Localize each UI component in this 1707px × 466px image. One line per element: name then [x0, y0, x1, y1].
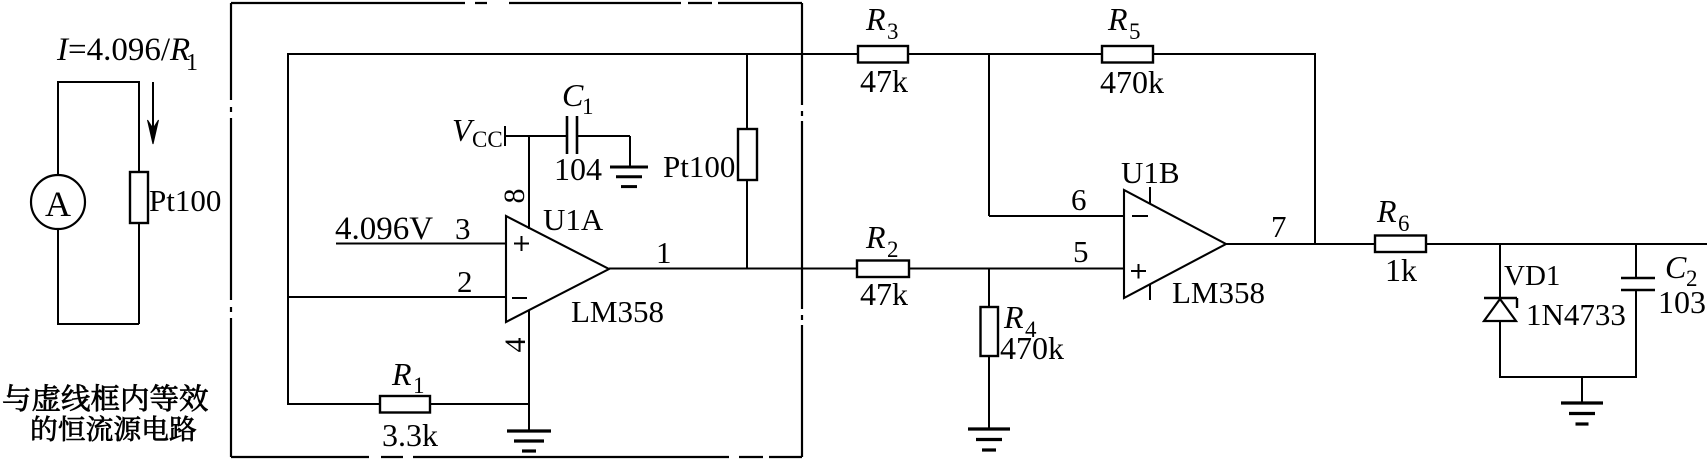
label R5 — [1107, 1, 1141, 44]
svg-text:470k: 470k — [1000, 330, 1064, 366]
U1B plus input marker — [1131, 264, 1146, 279]
svg-text:I=4.096/R: I=4.096/R — [56, 32, 190, 68]
wire R6 to right edge — [1426, 243, 1707, 245]
svg-text:R: R — [1376, 193, 1397, 229]
svg-text:CC: CC — [472, 127, 503, 152]
svg-text:Pt100: Pt100 — [149, 183, 221, 218]
label R4 — [1003, 299, 1037, 342]
ground for C1 — [610, 167, 648, 187]
wire VD1 branch upper — [1499, 244, 1501, 298]
ammeter A circle — [31, 175, 85, 229]
resistor R3 box — [858, 46, 908, 63]
U1B bottom pin tick — [1149, 284, 1151, 300]
label VD1 — [1504, 260, 1560, 292]
svg-text:LM358: LM358 — [1172, 275, 1265, 310]
wire Vcc to C1 — [505, 135, 567, 137]
wire top-right vertical — [1314, 53, 1316, 244]
wire left-loop right lower — [138, 223, 140, 324]
label 3.3k — [382, 417, 438, 453]
wire C2 branch upper — [1635, 244, 1637, 278]
current direction arrow — [148, 82, 159, 144]
svg-text:R: R — [391, 356, 412, 392]
label pin 8 (rotated) — [498, 189, 531, 204]
op-amp U1B triangle — [1124, 190, 1226, 298]
label 470k (R5) — [1100, 64, 1164, 100]
svg-text:3: 3 — [887, 19, 899, 44]
label pin 6 — [1071, 182, 1087, 217]
dashed box left edge — [230, 3, 232, 457]
wire pin8 stub — [528, 136, 530, 229]
label pin 5 — [1073, 234, 1089, 269]
wire R1 left — [288, 403, 380, 405]
label 47k (R3) — [860, 63, 908, 99]
label Vcc — [452, 112, 503, 152]
svg-text:47k: 47k — [860, 276, 908, 312]
label R3 — [865, 1, 899, 44]
svg-text:R: R — [1107, 1, 1128, 37]
svg-text:1: 1 — [656, 235, 672, 270]
resistor R2 box — [857, 261, 909, 278]
resistor R1 box — [380, 396, 430, 413]
wire ground stem (right) — [1581, 377, 1583, 403]
svg-text:3.3k: 3.3k — [382, 417, 438, 453]
svg-text:U1B: U1B — [1121, 155, 1180, 190]
label pin 3 — [455, 211, 471, 246]
wire R3 to R5 — [908, 53, 1102, 55]
wire left-loop left upper — [57, 81, 59, 176]
label 1N4733 — [1526, 297, 1626, 332]
dashed box bottom edge — [231, 456, 802, 458]
wire U1A output — [609, 268, 857, 270]
label LM358 (U1B) — [1172, 275, 1265, 310]
label pin 7 — [1271, 209, 1287, 244]
svg-text:VD1: VD1 — [1504, 260, 1560, 292]
zener diode VD1 symbol — [1484, 298, 1517, 321]
svg-text:1: 1 — [186, 50, 198, 76]
resistor Pt100 sensor (left) — [130, 172, 148, 223]
wire top rail (U1A feedback to R3) — [288, 53, 858, 55]
label R2 — [865, 219, 899, 262]
svg-text:A: A — [45, 184, 71, 224]
label 103 — [1658, 284, 1706, 320]
capacitor C2 plates — [1621, 278, 1655, 290]
label pin 1 — [656, 235, 672, 270]
svg-text:R: R — [865, 219, 886, 255]
label Pt100 (left) — [149, 183, 221, 218]
capacitor C1 plates — [567, 116, 577, 154]
svg-text:Pt100: Pt100 — [663, 149, 735, 184]
wire R4 to ground — [988, 356, 990, 429]
wire Pt100 branch upper — [746, 54, 748, 129]
svg-text:R: R — [865, 1, 886, 37]
wire inner left vertical — [287, 53, 289, 405]
svg-text:1: 1 — [413, 373, 425, 398]
svg-text:U1A: U1A — [543, 202, 604, 237]
svg-text:470k: 470k — [1100, 64, 1164, 100]
svg-text:103: 103 — [1658, 284, 1706, 320]
wire left-loop right upper — [138, 81, 140, 173]
caption line1 (Chinese) 与虚线框内等效 — [3, 384, 207, 411]
label 1k — [1385, 252, 1417, 288]
ground (right) — [1561, 403, 1603, 424]
label R1 — [391, 356, 425, 398]
label 470k (R4) — [1000, 330, 1064, 366]
label C1 — [562, 77, 594, 119]
label pin 4 (rotated) — [499, 338, 532, 353]
wire VD1 branch lower — [1499, 321, 1501, 378]
svg-text:3: 3 — [455, 211, 471, 246]
wire left-loop left lower — [57, 229, 59, 325]
wire C2 branch lower — [1635, 290, 1637, 378]
label 4.096V — [335, 211, 433, 247]
resistor Pt100 (in box) — [738, 129, 757, 180]
resistor R5 box — [1102, 46, 1153, 63]
label 47k (R2) — [860, 276, 908, 312]
svg-text:6: 6 — [1398, 211, 1410, 236]
resistor R4 box — [981, 307, 999, 356]
svg-text:1: 1 — [582, 94, 594, 119]
wire C1 to ground — [577, 136, 630, 167]
svg-text:104: 104 — [554, 151, 602, 187]
wire R2 to U1B pin5 — [909, 268, 1124, 270]
label 104 — [554, 151, 602, 187]
dashed box top edge — [231, 2, 802, 4]
svg-text:47k: 47k — [860, 63, 908, 99]
dashed box right edge — [801, 3, 803, 457]
op-amp U1A triangle — [506, 216, 609, 322]
ground for R4 — [968, 429, 1010, 450]
svg-text:1N4733: 1N4733 — [1526, 297, 1626, 332]
svg-text:4.096V: 4.096V — [335, 211, 433, 247]
svg-text:6: 6 — [1071, 182, 1087, 217]
svg-text:5: 5 — [1129, 19, 1141, 44]
U1A minus input marker — [512, 297, 527, 299]
label Pt100 (in box) — [663, 149, 735, 184]
svg-text:2: 2 — [887, 237, 899, 262]
svg-text:C: C — [562, 77, 584, 113]
Vcc terminal tick — [504, 126, 506, 146]
wire bottom rail VD1-C2 — [1500, 376, 1636, 378]
label U1B — [1121, 155, 1180, 190]
label C2 — [1665, 249, 1698, 291]
wire pin3 input — [336, 243, 506, 245]
svg-text:1k: 1k — [1385, 252, 1417, 288]
U1B minus input marker — [1132, 215, 1148, 217]
wire left-loop top — [58, 81, 139, 83]
resistor R6 box — [1375, 236, 1426, 253]
wire pin4 stub to ground — [528, 310, 530, 431]
svg-text:LM358: LM358 — [571, 294, 664, 329]
label LM358 (U1A) — [571, 294, 664, 329]
svg-text:5: 5 — [1073, 234, 1089, 269]
wire pin2 input — [288, 296, 506, 298]
svg-text:C: C — [1665, 249, 1687, 285]
U1B top pin tick — [1149, 187, 1151, 204]
wire R1 right — [430, 403, 529, 405]
svg-text:8: 8 — [498, 189, 531, 204]
wire pin6 input — [989, 215, 1124, 217]
svg-text:7: 7 — [1271, 209, 1287, 244]
wire R5 to corner — [1153, 53, 1315, 55]
U1A plus input marker — [514, 236, 529, 251]
wire junction down to pin6 — [988, 54, 990, 216]
wire Pt100 branch lower — [746, 180, 748, 269]
wire left-loop bottom — [58, 323, 139, 325]
svg-text:4: 4 — [499, 338, 532, 353]
ground for U1A pin4 — [507, 431, 551, 451]
wire U1B output — [1226, 243, 1375, 245]
label pin 2 — [457, 264, 473, 299]
svg-text:2: 2 — [457, 264, 473, 299]
label R6 — [1376, 193, 1410, 236]
label U1A — [543, 202, 604, 237]
caption line2 (Chinese) 的恒流源电路 — [33, 415, 197, 441]
label I=4.096/R1 current formula — [56, 32, 198, 76]
wire R4 branch — [988, 268, 990, 307]
